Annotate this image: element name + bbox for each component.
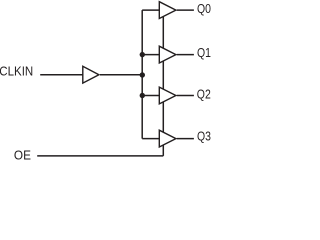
- svg-text:OE: OE: [14, 148, 31, 160]
- buffer Q3: [159, 130, 176, 147]
- wire Q2 output: [177, 95, 194, 97]
- wire stub Q2: [142, 95, 159, 97]
- wire stub Q0: [142, 9, 159, 11]
- svg-text:Q2: Q2: [197, 86, 211, 101]
- wire stub Q3: [142, 138, 159, 140]
- junction dot Q2 tee: [140, 93, 145, 98]
- svg-text:Q3: Q3: [197, 128, 211, 143]
- wire CLKIN input: [40, 74, 83, 76]
- wire Q1 output: [177, 54, 194, 56]
- wire Q3 output: [177, 138, 194, 140]
- wire OE enable vertical: [162, 17, 164, 156]
- buffer U1 input: [83, 66, 99, 83]
- buffer Q2: [159, 87, 176, 104]
- svg-text:Q1: Q1: [197, 45, 211, 60]
- junction dot Q1 tee: [140, 52, 145, 57]
- buffer Q0: [159, 2, 176, 19]
- svg-text:CLKIN: CLKIN: [0, 64, 33, 79]
- wire Q0 output: [177, 9, 194, 11]
- wire trunk vertical: [141, 10, 143, 139]
- junction dot CLKIN tee: [140, 72, 145, 77]
- buffer Q1: [159, 46, 176, 63]
- wire stub Q1: [142, 54, 159, 56]
- svg-text:Q0: Q0: [197, 1, 211, 16]
- wire buffer output to trunk: [100, 74, 142, 76]
- wire OE horizontal: [37, 155, 163, 157]
